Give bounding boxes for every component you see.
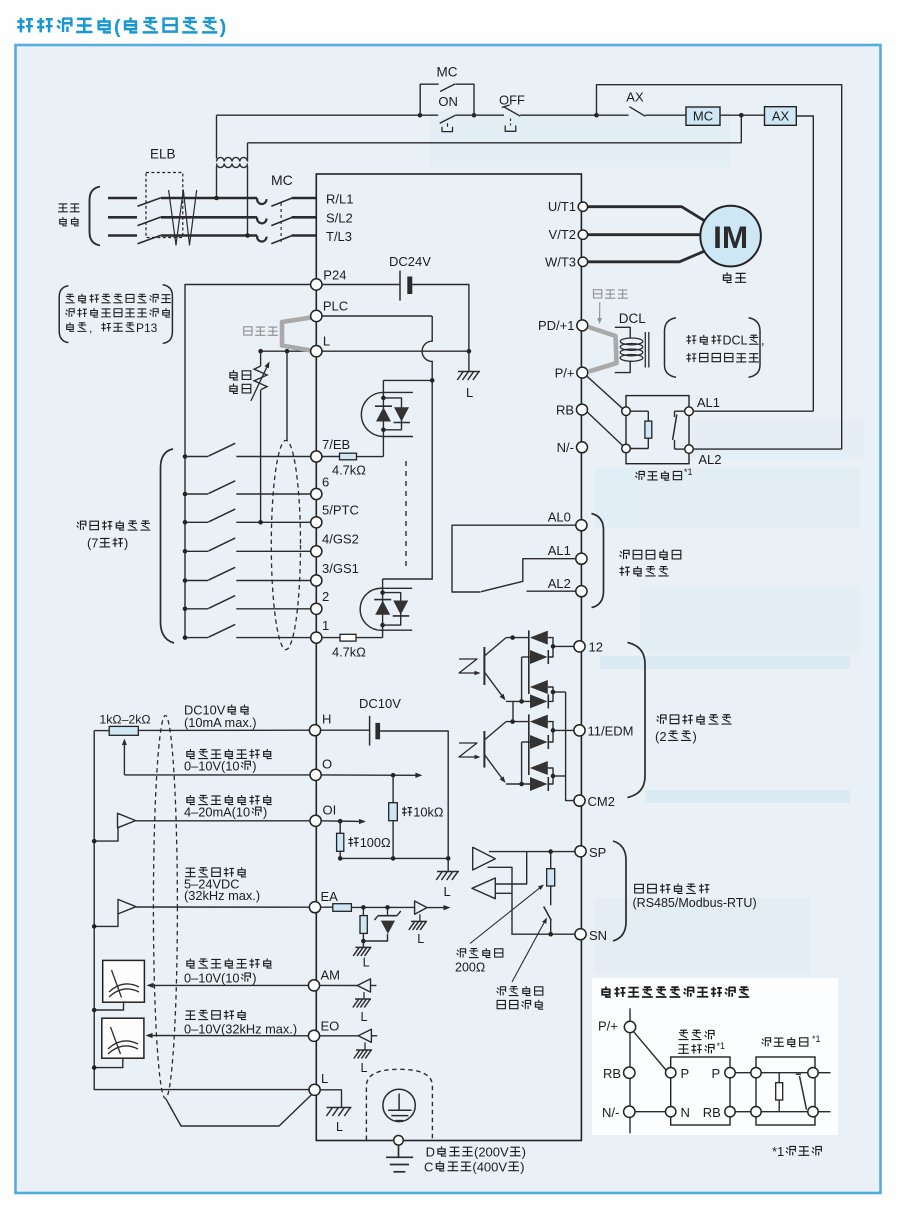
- wire PLC to optocoupler commons: [322, 315, 432, 317]
- label MC (auxiliary contact): [437, 65, 458, 80]
- earth ground symbol: [398, 1145, 400, 1157]
- ground AM amp: [363, 992, 365, 999]
- switch input 6: [185, 493, 208, 495]
- label PD/+1: [538, 318, 575, 333]
- thermal switch in braking unit: [675, 410, 685, 412]
- label 4.7kΩ: [332, 645, 366, 660]
- potentiometer 1k-2k: [94, 730, 109, 732]
- node transformer tap on T phase: [245, 233, 250, 238]
- terminal U/T1: [578, 202, 587, 211]
- node SN / switch: [548, 932, 553, 937]
- svg-text:,: ,: [761, 334, 764, 348]
- label 制动电阻*1: [762, 1037, 808, 1046]
- wire RB to braking resistor: [586, 411, 622, 445]
- resistor element (external): [761, 1072, 808, 1074]
- label 3/GS1: [322, 561, 359, 576]
- svg-text:L: L: [417, 932, 424, 946]
- svg-text:DC10V: DC10V: [359, 696, 401, 711]
- svg-text:4.7kΩ: 4.7kΩ: [332, 463, 366, 478]
- svg-text:): ): [520, 1159, 524, 1174]
- wire T phase to terminal T/L3: [292, 234, 317, 237]
- terminal AL0: [576, 520, 587, 531]
- terminal resistor bottom-left: [751, 1107, 761, 1117]
- label S/L2: [326, 211, 353, 226]
- reactor DCL: [615, 327, 630, 338]
- resistor EA series: [321, 906, 333, 908]
- contactor MC linkage: [280, 203, 282, 243]
- svg-text:): ): [252, 759, 256, 774]
- node bus junction row 5/PTC: [183, 520, 188, 525]
- svg-text:P13: P13: [136, 321, 158, 335]
- node terminal junction 12: [551, 644, 556, 649]
- pushbutton OFF (normally closed): [502, 105, 510, 107]
- svg-text:T/L3: T/L3: [326, 229, 352, 244]
- jumper 短接片 PLC-L (grey shorting bar): [282, 318, 311, 351]
- node transformer tap on R phase: [214, 196, 219, 201]
- label L (analog ground): [444, 884, 451, 899]
- wire S phase to terminal S/L2: [292, 216, 317, 219]
- zener diode EA clamp: [387, 907, 389, 914]
- svg-text:AL0: AL0: [548, 509, 571, 524]
- label RB: [603, 1066, 621, 1081]
- wire W/T3 to motor: [587, 250, 706, 261]
- braking resistor box (external): [756, 1057, 815, 1125]
- resistor approx 10k: [392, 775, 394, 802]
- switch terminating resistor selector: [544, 907, 552, 921]
- label ELB: [150, 147, 176, 162]
- wire left analog common bus: [94, 731, 309, 1090]
- svg-text:S/L2: S/L2: [326, 211, 353, 226]
- terminal unit P right: [725, 1068, 735, 1078]
- label 电机 (motor): [723, 272, 746, 282]
- light arrows 12: [459, 659, 478, 673]
- terminal unit P left: [666, 1068, 676, 1078]
- svg-text:RB: RB: [603, 1066, 621, 1081]
- amplifier EA internal: [415, 901, 427, 914]
- wire lower pairs to CM2: [566, 692, 574, 801]
- svg-text:12: 12: [589, 640, 603, 655]
- svg-text:V/T2: V/T2: [549, 227, 576, 242]
- svg-text:C: C: [424, 1159, 433, 1174]
- svg-text:(2: (2: [655, 729, 667, 744]
- label AL1: [697, 395, 720, 410]
- note text DCL line1: [686, 334, 764, 348]
- svg-text:DCL: DCL: [723, 334, 748, 348]
- bracket intelligent input terminals: [161, 449, 175, 643]
- terminal EA: [309, 902, 320, 913]
- wire L terminal to ground: [320, 1090, 341, 1108]
- svg-text:RB: RB: [703, 1105, 721, 1120]
- terminal RB (panel): [624, 1067, 635, 1078]
- terminal unit RB right: [725, 1107, 735, 1117]
- wire AL2 contact: [527, 590, 576, 592]
- resistor 4.7k (7/EB input): [322, 456, 340, 458]
- wire AX coil to AL1 return line: [796, 116, 813, 411]
- terminal W/T3: [578, 257, 587, 266]
- resistor 4.7k (input 1): [322, 637, 340, 639]
- terminal 1: [311, 632, 322, 643]
- wire AL1 contact: [523, 559, 576, 581]
- wire battery to L ground line: [412, 285, 469, 372]
- svg-text:2: 2: [322, 589, 329, 604]
- node junction to AL2 hold loop: [594, 113, 599, 118]
- meter AM lead: [94, 1002, 123, 1010]
- terminal resistor top-right: [808, 1068, 818, 1078]
- label 短接片 (shorting jumper): [244, 327, 278, 336]
- terminal unit N left: [666, 1107, 676, 1117]
- svg-text:EO: EO: [321, 1019, 340, 1034]
- svg-text:11/EDM: 11/EDM: [588, 723, 634, 738]
- svg-text:(7: (7: [87, 536, 98, 551]
- label L: [417, 932, 424, 946]
- label L: [323, 333, 330, 348]
- label AL2: [548, 576, 571, 591]
- label L: [336, 1120, 343, 1134]
- ground EA input: [353, 947, 371, 956]
- wire EA input: [136, 906, 309, 908]
- terminal 11/EDM: [574, 725, 585, 736]
- node terminal junction 11/EDM: [551, 728, 556, 733]
- wire shield drain to input shield: [286, 351, 288, 441]
- label W/T3: [545, 254, 576, 269]
- motor IM: [700, 206, 761, 267]
- label L (ground): [466, 385, 473, 400]
- footnote *1为选件: [772, 1144, 822, 1159]
- node junction thermistor on L wire: [258, 349, 263, 354]
- note bubble 在使用DCL时: [665, 318, 677, 378]
- resistor approx 100R: [339, 821, 341, 833]
- node common / DC10V return: [446, 856, 451, 861]
- svg-text:*1: *1: [717, 1041, 726, 1051]
- ground EA amp: [419, 914, 421, 921]
- terminal 4/GS2: [311, 546, 322, 557]
- braking resistor unit box 制动电阻: [626, 396, 689, 464]
- svg-text:AL1: AL1: [697, 395, 720, 410]
- switch input 1: [185, 637, 208, 639]
- wire line A between ON and OFF: [475, 114, 504, 116]
- wire O internal with arrow: [321, 774, 420, 776]
- wire SP: [489, 851, 575, 853]
- svg-text:): ): [252, 970, 256, 985]
- emitter 12: [484, 672, 504, 698]
- wire S phase stub: [108, 216, 137, 219]
- svg-text:*1: *1: [772, 1144, 784, 1159]
- switch input 3/GS1: [185, 580, 208, 582]
- label AL0: [548, 509, 571, 524]
- label DC10V: [359, 696, 401, 711]
- meter AM (analog voltage output): [103, 960, 145, 1002]
- svg-text:L: L: [321, 1071, 328, 1086]
- svg-text:EA: EA: [321, 889, 339, 904]
- svg-text:O: O: [322, 756, 332, 771]
- switch input 2: [185, 608, 208, 610]
- protective earth symbol circle: [383, 1089, 415, 1121]
- wire return to transformer (line B): [248, 115, 742, 143]
- wire DC bus vertical: [629, 1008, 631, 1133]
- terminal AL2: [576, 586, 587, 597]
- LED diode down (opto1): [394, 407, 409, 421]
- amplifier OI input: [118, 813, 136, 828]
- wire between output units: [512, 701, 514, 721]
- breaker ELB trip linkage W: [169, 190, 197, 245]
- label 12: [589, 640, 603, 655]
- label 2: [322, 589, 329, 604]
- regenerative braking unit box: [671, 1057, 730, 1125]
- label 7/EB: [322, 437, 350, 452]
- optocoupler input group 1: [383, 379, 431, 381]
- wire L terminal to thermistor branch: [261, 350, 311, 352]
- pointer arrow to selector switch: [512, 920, 546, 982]
- label P24: [323, 267, 346, 282]
- inverter enclosure outline: [316, 174, 581, 1141]
- wire MC coil to AX coil: [720, 114, 765, 116]
- switch input 4/GS2: [185, 550, 208, 552]
- svg-text:AL1: AL1: [548, 543, 571, 558]
- node junction line A left of ON button: [418, 113, 423, 118]
- light arrows 11/EDM: [459, 743, 478, 757]
- node bus junction row 2: [183, 607, 188, 612]
- svg-text:L: L: [361, 1010, 368, 1024]
- node bus junction row 6: [183, 492, 188, 497]
- terminal EO: [308, 1030, 319, 1041]
- node junction between MC and AX coils: [739, 113, 744, 118]
- svg-text:MC: MC: [693, 108, 713, 123]
- label 智能继电器输出端子: [620, 550, 681, 560]
- svg-text:4/GS2: 4/GS2: [322, 532, 359, 547]
- wire SP branch to receiver: [495, 852, 526, 884]
- label PLC: [323, 299, 348, 314]
- svg-text:N/-: N/-: [557, 440, 574, 455]
- jumper 短接片 PD/+1 - P/+ (grey): [589, 327, 617, 372]
- label P: [712, 1066, 721, 1081]
- breaker ELB pole S blade: [138, 217, 161, 226]
- svg-text:L: L: [336, 1120, 343, 1134]
- node SP / resistor: [548, 849, 553, 854]
- wire AM output: [149, 984, 309, 986]
- wire receiver lower input: [495, 892, 512, 894]
- ground L terminal: [326, 1108, 351, 1117]
- terminal braking box bottom-right: [685, 445, 694, 454]
- node bus junction row 3/GS1: [183, 578, 188, 583]
- phototransistor output 11/EDM: [483, 731, 485, 768]
- emitter 11/EDM: [484, 755, 504, 781]
- wire SN from driver: [488, 867, 575, 934]
- opto1 envelope: [361, 392, 413, 436]
- terminal braking box bottom-left: [622, 444, 631, 453]
- terminal resistor top-left: [751, 1068, 761, 1078]
- terminal braking box top-left: [622, 407, 631, 416]
- wire EO output: [148, 1035, 309, 1037]
- node thermistor to 5/PTC: [258, 520, 263, 525]
- node lower pair junction 11/EDM: [551, 774, 556, 779]
- label 约10kΩ: [402, 805, 444, 820]
- node bus meter AM: [92, 1008, 97, 1013]
- svg-text:SP: SP: [589, 845, 606, 860]
- terminal P/+: [577, 367, 588, 378]
- wire OI input: [136, 820, 310, 822]
- resistor element: [630, 410, 648, 412]
- label 智能输入端子: [77, 520, 151, 530]
- svg-text:): ): [263, 804, 267, 819]
- svg-text:L: L: [361, 1061, 368, 1075]
- label AM: [321, 968, 341, 983]
- svg-text:1: 1: [322, 618, 329, 633]
- svg-text:N: N: [681, 1105, 690, 1120]
- contact AX (relay contact in MC coil circuit): [597, 114, 629, 116]
- svg-text:(400V: (400V: [472, 1159, 507, 1174]
- svg-text:200Ω: 200Ω: [455, 961, 485, 975]
- terminal P/+ (panel): [624, 1021, 635, 1032]
- bracket serial port: [613, 841, 626, 941]
- pointer arrow to terminating resistor: [470, 887, 542, 944]
- label 热敏电阻 (thermistor): [230, 370, 251, 380]
- label CM2: [588, 794, 615, 809]
- label N: [681, 1105, 690, 1120]
- label DC24V: [389, 254, 431, 269]
- label D种接地(200V级): [426, 1145, 526, 1160]
- terminal L (control common): [311, 346, 322, 357]
- terminal P24: [311, 279, 322, 290]
- LED diode down (opto2): [393, 601, 408, 615]
- svg-text:RB: RB: [556, 402, 574, 417]
- terminal 6: [311, 488, 322, 499]
- amplifier EA input: [118, 899, 136, 914]
- label 11/EDM: [588, 723, 634, 738]
- receiver triangle RS485: [472, 878, 495, 899]
- label SP: [589, 845, 606, 860]
- svg-text:ELB: ELB: [150, 147, 176, 162]
- svg-text:3/GS1: 3/GS1: [322, 561, 359, 576]
- label ON: [438, 94, 458, 109]
- dashed continuation between optos: [405, 461, 407, 568]
- svg-text:AX: AX: [626, 90, 644, 105]
- heading 使用外置再生制动单元时: [602, 987, 749, 997]
- wire R phase to terminal R/L1: [292, 197, 317, 200]
- contactor MC pole R: [257, 198, 266, 204]
- label 脉冲串输入: [185, 867, 246, 877]
- terminal earth (on inverter bottom): [394, 1136, 404, 1146]
- diode pair upper 12: [528, 630, 530, 694]
- node OI / 100R resistor: [338, 819, 343, 824]
- wire AL1 to AX circuit: [693, 410, 813, 412]
- terminal N/- (panel): [624, 1106, 635, 1117]
- dashed enclosure earth terminal: [366, 1069, 432, 1140]
- label O: [322, 756, 332, 771]
- label 再生制动单元*1: [678, 1030, 714, 1039]
- wire R phase ELB to MC: [161, 197, 257, 200]
- svg-text:4.7kΩ: 4.7kΩ: [332, 645, 366, 660]
- resistor EA pulldown: [362, 907, 364, 915]
- node junction shield drain on L wire: [285, 349, 290, 354]
- svg-text:DC24V: DC24V: [389, 254, 431, 269]
- terminal PD/+1: [577, 320, 588, 331]
- meter EO lead: [94, 1058, 123, 1067]
- label 6: [322, 474, 329, 489]
- svg-text:0–10V(10: 0–10V(10: [184, 759, 240, 774]
- switch input 5/PTC: [185, 521, 208, 523]
- stub wires right: [818, 1072, 830, 1074]
- svg-text:(200V: (200V: [474, 1145, 509, 1160]
- shield drain wire to L: [166, 1095, 311, 1126]
- node bus EA amp: [92, 924, 97, 929]
- svg-text:OFF: OFF: [499, 93, 525, 108]
- phototransistor output 12: [483, 647, 485, 685]
- label V/T2: [549, 227, 576, 242]
- wire U/T1 to motor: [587, 207, 706, 222]
- terminal O: [310, 769, 321, 780]
- wire OI internal with arrow: [321, 820, 364, 823]
- svg-text:P/+: P/+: [598, 1019, 618, 1034]
- terminal H: [309, 725, 320, 736]
- transformer T1 control supply: [216, 115, 218, 158]
- label RB: [703, 1105, 721, 1120]
- opto2 envelope: [360, 588, 412, 630]
- label 终端电阻切换开关: [497, 986, 543, 995]
- label 约100Ω: [348, 835, 391, 850]
- svg-text:): ): [693, 729, 697, 744]
- breaker ELB dashed enclosure: [146, 173, 183, 238]
- svg-text:CM2: CM2: [588, 794, 615, 809]
- svg-text:MC: MC: [437, 65, 458, 80]
- label EA: [321, 889, 339, 904]
- label P/+: [555, 365, 575, 380]
- svg-text:): ): [124, 536, 128, 551]
- ground EO amp: [364, 1042, 366, 1050]
- label N/-: [602, 1105, 619, 1120]
- svg-text:(: (: [114, 16, 121, 38]
- node lower pair junction 12: [551, 690, 556, 695]
- svg-text:OI: OI: [323, 803, 337, 818]
- battery DC24V: [399, 271, 401, 301]
- svg-text:AL2: AL2: [698, 452, 721, 467]
- label AX (contact): [626, 90, 644, 105]
- node bus junction row 4/GS2: [183, 549, 188, 554]
- svg-text:4–20mA(10: 4–20mA(10: [184, 804, 250, 819]
- label 模拟量电压输入: [187, 749, 272, 759]
- label SN: [589, 928, 607, 943]
- label R/L1: [326, 191, 353, 206]
- label 智能输出端子: [657, 714, 732, 724]
- wire V/T2 to motor: [587, 233, 700, 236]
- svg-text:L: L: [444, 884, 451, 899]
- svg-text:(32kHz max.): (32kHz max.): [184, 888, 260, 903]
- amplifier EO output: [358, 1029, 371, 1042]
- label 短接片 (DC link jumper): [594, 290, 628, 299]
- wire AL2 to hold circuit: [693, 448, 841, 450]
- label OI: [323, 803, 337, 818]
- svg-text:L: L: [323, 333, 330, 348]
- relay changeover blade: [481, 581, 524, 592]
- diode pair upper 11/EDM: [528, 714, 530, 775]
- wire T phase stub: [108, 234, 137, 237]
- node junction line A right of ON button: [472, 113, 477, 118]
- label 1kΩ–2kΩ: [99, 712, 150, 726]
- coil MC (contactor coil box): [686, 107, 720, 125]
- thermal contact (external resistor): [796, 1073, 801, 1075]
- wiper arrow O input: [123, 741, 125, 775]
- svg-text:6: 6: [322, 474, 329, 489]
- title 标准连接图(源型逻辑时): [17, 16, 226, 38]
- terminal 5/PTC: [311, 517, 322, 528]
- svg-text:): ): [220, 16, 227, 38]
- note bubble 当使用漏型逻辑...: [59, 286, 68, 343]
- pointer arrow to jumper: [599, 302, 601, 320]
- wires unit to braking resistor: [735, 1072, 750, 1074]
- svg-text:(RS485/Modbus-RTU): (RS485/Modbus-RTU): [633, 896, 757, 910]
- label AL2: [698, 452, 721, 467]
- wire O input: [124, 774, 310, 776]
- svg-text:U/T1: U/T1: [548, 199, 576, 214]
